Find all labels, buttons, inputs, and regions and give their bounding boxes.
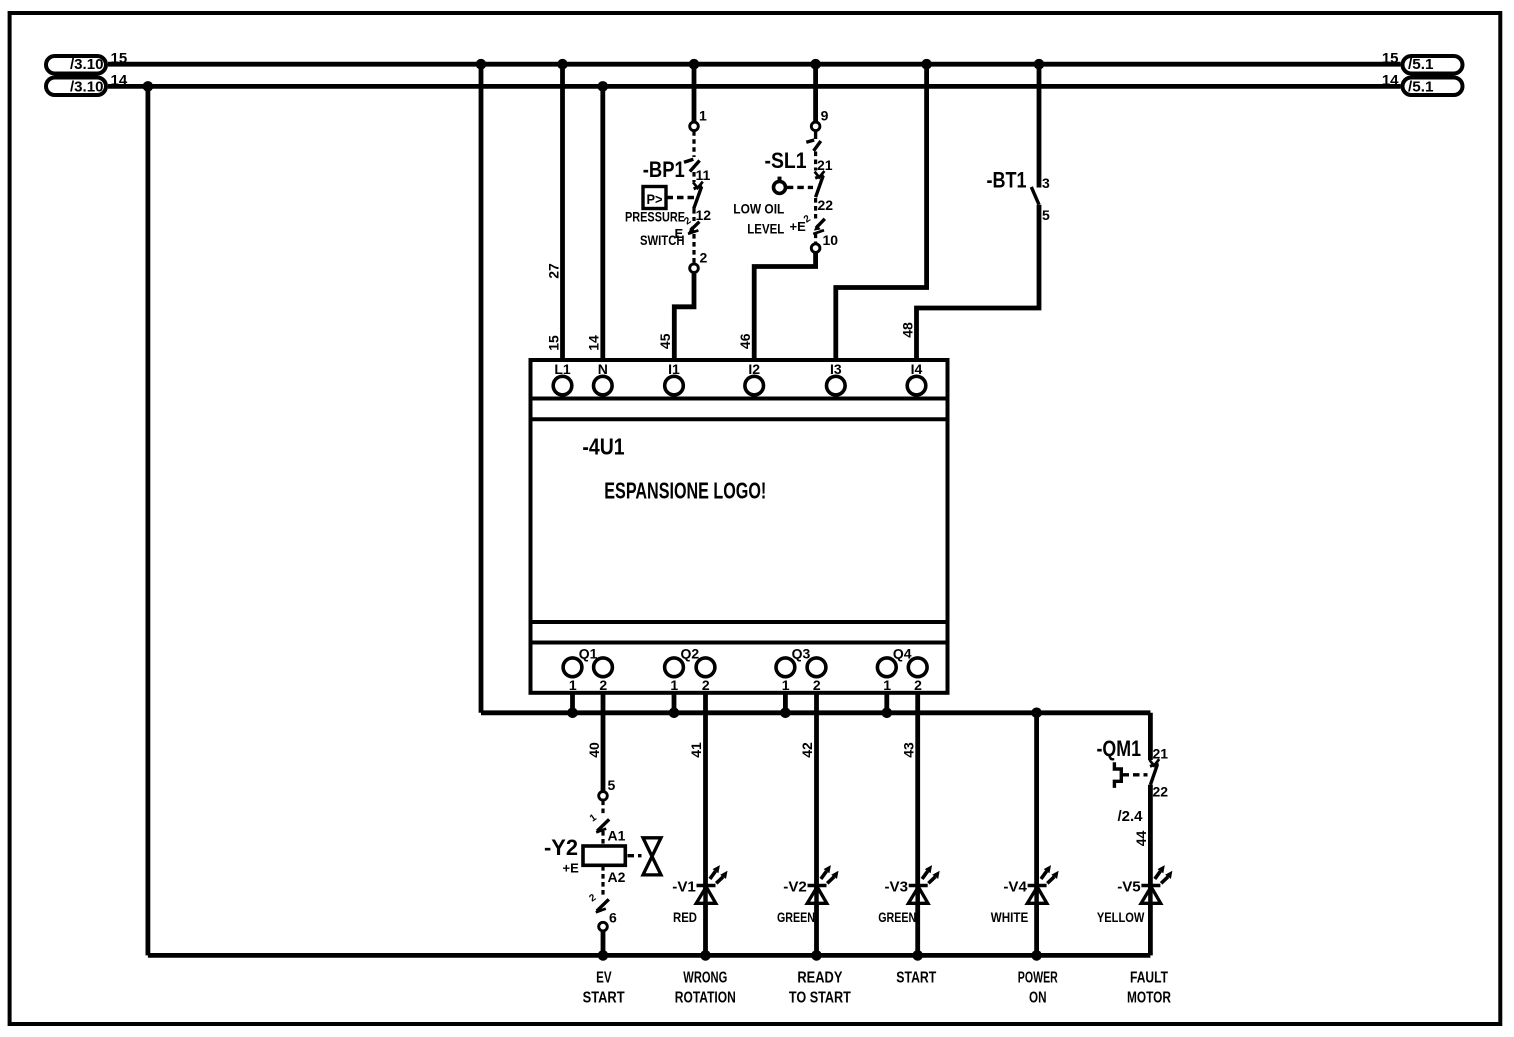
svg-text:START: START — [583, 990, 625, 1007]
svg-text:1: 1 — [670, 677, 678, 693]
svg-text:-V3: -V3 — [885, 878, 909, 895]
svg-text:5: 5 — [1042, 207, 1050, 223]
wire bus15 to SL1 pin 9 — [813, 64, 818, 122]
Y2 small mark 1 — [588, 812, 599, 824]
U1 output Q4 terminals — [877, 646, 927, 694]
svg-text:Q3: Q3 — [792, 646, 811, 662]
net label 15 left — [111, 50, 128, 67]
svg-text:E: E — [675, 226, 684, 241]
caption READY TO START — [789, 970, 851, 1007]
svg-text:-V1: -V1 — [672, 878, 696, 895]
BT1 pin label 3 — [1042, 175, 1050, 191]
svg-text:42: 42 — [799, 742, 815, 758]
svg-text:Q1: Q1 — [579, 646, 598, 662]
svg-text:48: 48 — [899, 322, 915, 338]
junction on bus 15 at x562 — [557, 59, 568, 70]
wire from common rail to QM1 — [1148, 713, 1153, 760]
thermostat contact BT1 — [1031, 187, 1039, 205]
svg-text:44: 44 — [1133, 831, 1149, 847]
wire 27/15 from bus 15 to terminal L1 — [560, 64, 565, 360]
svg-text:10: 10 — [823, 232, 839, 248]
svg-text:12: 12 — [696, 207, 712, 223]
SL1 pin label 22 — [818, 197, 834, 213]
wire number 14 — [586, 335, 602, 351]
wire number 15 — [545, 335, 561, 351]
SL1 pin label 10 — [823, 232, 839, 248]
net label 14 right — [1382, 72, 1399, 89]
svg-text:ESPANSIONE LOGO!: ESPANSIONE LOGO! — [604, 477, 766, 503]
svg-text:PRESSURE: PRESSURE — [625, 209, 685, 225]
Y2 small mark 2 — [587, 892, 598, 904]
destination connector /5.1 (net 14) — [1403, 78, 1463, 96]
svg-text:-BT1: -BT1 — [987, 168, 1027, 193]
junction rail Q3.1 — [780, 708, 791, 719]
svg-text:2: 2 — [700, 249, 708, 265]
source connector /3.10 (net 15) — [46, 56, 106, 74]
junction rail Q2.1 — [669, 708, 680, 719]
svg-text:EV: EV — [596, 970, 612, 987]
U1 terminal I2 — [745, 361, 764, 395]
U1 output Q1 terminals — [563, 646, 612, 694]
net label 14 left — [111, 72, 128, 89]
svg-text:LEVEL: LEVEL — [747, 221, 784, 237]
wire Q3.1 stub to common rail — [783, 693, 788, 713]
wire number 41 — [688, 742, 704, 758]
svg-text:N: N — [598, 361, 608, 377]
svg-text:2: 2 — [702, 677, 710, 693]
V3 colour label GREEN — [878, 909, 916, 925]
U1 terminal I1 — [665, 361, 684, 395]
junction on bus 15 at x815 — [810, 59, 821, 70]
overload contact QM1 — [1114, 759, 1159, 788]
svg-text:40: 40 — [586, 742, 602, 758]
wire bus15 to BP1 pin 1 — [692, 64, 697, 122]
LED lamp V3 — [908, 865, 939, 903]
wire from common rail to lamp V4 — [1034, 713, 1039, 956]
BP1 function text PRESSURE SWITCH — [625, 209, 685, 249]
svg-text:22: 22 — [818, 197, 834, 213]
svg-text:A1: A1 — [608, 828, 626, 844]
caption START — [896, 970, 936, 987]
V2 designator — [783, 878, 807, 895]
svg-text:-4U1: -4U1 — [582, 434, 624, 460]
svg-text:2: 2 — [914, 677, 922, 693]
wire 46 from SL1 pin10 to I2 — [754, 252, 815, 360]
wire from bus 14 down far left to bottom return rail — [145, 86, 150, 955]
svg-text:WRONG: WRONG — [683, 970, 727, 987]
junction on bus 15 at x481 — [476, 59, 487, 70]
svg-text:3: 3 — [1042, 175, 1050, 191]
wire 43 from Q4.2 to lamp V3 — [915, 693, 920, 955]
SL1 designator — [765, 148, 807, 173]
wire from bus 15 down left side to output common rail — [479, 64, 484, 713]
caption EV START — [583, 970, 625, 1007]
U1 terminal N — [594, 361, 613, 395]
Y2 pin label A1 — [608, 828, 626, 844]
BP1 pin label 11 — [696, 167, 711, 183]
V4 designator — [1003, 878, 1027, 895]
svg-text:-SL1: -SL1 — [765, 148, 807, 173]
V2 colour label GREEN — [777, 909, 815, 925]
Y2 pin label A2 — [608, 869, 626, 885]
wire Q4.1 stub to common rail — [884, 693, 889, 713]
wire 48 from BT1 pin5 to I4 — [917, 205, 1040, 360]
LED lamp V5 — [1141, 865, 1172, 903]
SL1 pin label 21 — [817, 157, 833, 173]
svg-text:14: 14 — [1382, 72, 1399, 89]
Y2 pin label 6 — [609, 910, 617, 926]
svg-text:+E: +E — [790, 219, 807, 234]
svg-text:-Y2: -Y2 — [544, 835, 578, 860]
svg-text:43: 43 — [900, 742, 916, 758]
svg-text:9: 9 — [821, 108, 829, 124]
BP1 mechanical link dashed — [667, 196, 696, 199]
svg-text:+E: +E — [563, 861, 580, 876]
svg-text:I3: I3 — [830, 361, 842, 377]
svg-text:GREEN: GREEN — [777, 909, 815, 925]
BP1 P> pressure sensor box — [643, 187, 666, 209]
V4 colour label WHITE — [991, 909, 1029, 925]
svg-text:MOTOR: MOTOR — [1127, 990, 1171, 1007]
svg-text:-V2: -V2 — [783, 878, 807, 895]
svg-text:21: 21 — [817, 157, 833, 173]
junction return V4 — [1031, 950, 1042, 961]
wire 14 from bus 14 to terminal N — [600, 86, 605, 360]
svg-text:GREEN: GREEN — [878, 909, 916, 925]
svg-text:YELLOW: YELLOW — [1097, 909, 1145, 925]
svg-text:/5.1: /5.1 — [1408, 56, 1434, 73]
V5 colour label YELLOW — [1097, 909, 1145, 925]
wire bus 14 — [108, 84, 1401, 89]
wire 41 from Q2.2 to lamp V1 — [703, 693, 708, 955]
svg-text:/2.4: /2.4 — [1117, 808, 1143, 825]
LED lamp V4 — [1027, 865, 1058, 903]
junction return V3 — [912, 950, 923, 961]
caption FAULT MOTOR — [1127, 970, 1171, 1007]
QM1 pin label 22 — [1153, 784, 1169, 800]
junction return V1 — [700, 950, 711, 961]
junction on bus 15 at x1039 — [1034, 59, 1045, 70]
svg-text:15: 15 — [1382, 50, 1399, 67]
LED lamp V1 — [696, 865, 727, 903]
svg-text:1: 1 — [782, 677, 790, 693]
U1 designator -4U1 — [582, 434, 624, 460]
Y2 pin label 5 — [608, 777, 616, 793]
BT1 pin label 5 — [1042, 207, 1050, 223]
wire number 46 — [737, 333, 753, 349]
junction return Y2 — [598, 950, 609, 961]
svg-text:START: START — [896, 970, 936, 987]
svg-text:1: 1 — [569, 677, 577, 693]
svg-text:/3.10: /3.10 — [70, 79, 104, 96]
svg-text:FAULT: FAULT — [1130, 970, 1168, 987]
wire number 48 — [899, 322, 915, 338]
BP1 small mark 2 — [682, 215, 693, 227]
wire 44 from QM1 to lamp V5 — [1148, 785, 1153, 956]
LED lamp V2 — [807, 865, 838, 903]
junction rail Q1.1 — [567, 708, 578, 719]
junction on bus 15 at x694 — [689, 59, 700, 70]
svg-text:Q2: Q2 — [680, 646, 699, 662]
svg-text:-QM1: -QM1 — [1097, 736, 1142, 761]
BP1 pin label 2 — [700, 249, 708, 265]
BP1 small mark E — [675, 226, 684, 241]
svg-text:I1: I1 — [668, 361, 680, 377]
svg-text:A2: A2 — [608, 869, 626, 885]
svg-text:45: 45 — [657, 333, 673, 349]
V5 designator — [1117, 878, 1141, 895]
svg-text:2: 2 — [813, 677, 821, 693]
SL1 mounting text +E — [790, 219, 807, 234]
svg-text:READY: READY — [797, 970, 842, 987]
wire 45 from BP1 pin2 to I1 — [674, 272, 694, 360]
svg-text:14: 14 — [586, 335, 602, 351]
float switch SL1 — [774, 122, 825, 252]
wire number 45 — [657, 333, 673, 349]
svg-text:RED: RED — [673, 909, 697, 925]
wire Q1.1 stub to common rail — [570, 693, 575, 713]
U1 output Q2 terminals — [665, 646, 715, 694]
destination connector /5.1 (net 15) — [1403, 56, 1463, 74]
U1 function text ESPANSIONE LOGO! — [604, 477, 766, 503]
wire bus 15 — [108, 62, 1401, 67]
BP1 pin label 12 — [696, 207, 712, 223]
wire number 40 — [586, 742, 602, 758]
svg-text:5: 5 — [608, 777, 616, 793]
wire bus15 to BT1 pin 3 — [1037, 64, 1042, 187]
svg-text:I4: I4 — [911, 361, 923, 377]
svg-text:1: 1 — [699, 108, 707, 124]
junction on bus 15 at x926 — [921, 59, 932, 70]
pressure switch BP1 — [684, 122, 703, 273]
svg-text:/3.10: /3.10 — [70, 56, 104, 73]
net label 15 right — [1382, 50, 1399, 67]
caption WRONG ROTATION — [675, 970, 736, 1007]
svg-text:-V5: -V5 — [1117, 878, 1141, 895]
SL1 small mark 2 — [802, 213, 813, 225]
PLC expansion module U1 body — [531, 360, 948, 693]
wire 42 from Q3.2 to lamp V2 — [814, 693, 819, 955]
svg-text:21: 21 — [1153, 746, 1169, 762]
wire from bus 15 to I3 — [836, 64, 927, 360]
QM1 cross reference /2.4 — [1117, 808, 1143, 825]
BP1 designator — [643, 157, 685, 182]
svg-text:-BP1: -BP1 — [643, 157, 685, 182]
junction on bus 14 at x147 — [143, 81, 154, 92]
source connector /3.10 (net 14) — [46, 78, 106, 96]
svg-text:L1: L1 — [554, 361, 571, 377]
V3 designator — [885, 878, 909, 895]
SL1 pin label 9 — [821, 108, 829, 124]
svg-text:-V4: -V4 — [1003, 878, 1027, 895]
Y2 designator — [544, 835, 578, 860]
junction return V2 — [811, 950, 822, 961]
svg-text:LOW OIL: LOW OIL — [733, 201, 784, 217]
wire Y2 pin6 to return rail — [601, 931, 606, 956]
svg-text:1: 1 — [883, 677, 891, 693]
solenoid valve Y2 — [583, 792, 661, 931]
caption POWER ON — [1018, 970, 1058, 1007]
wire 40 from Q1.2 to valve Y2 — [601, 693, 606, 792]
svg-text:I2: I2 — [748, 361, 760, 377]
svg-text:6: 6 — [609, 910, 617, 926]
svg-text:Q4: Q4 — [893, 646, 912, 662]
QM1 designator — [1097, 736, 1142, 761]
svg-text:27: 27 — [545, 263, 561, 279]
wire output common rail — [481, 710, 1150, 715]
wire number 42 — [799, 742, 815, 758]
U1 terminal L1 — [553, 361, 572, 395]
junction rail Q4.1 — [882, 708, 893, 719]
QM1 pin label 21 — [1153, 746, 1169, 762]
junction rail V4 branch — [1031, 708, 1042, 719]
svg-text:/5.1: /5.1 — [1408, 79, 1434, 96]
svg-text:22: 22 — [1153, 784, 1169, 800]
V1 colour label RED — [673, 909, 697, 925]
svg-text:POWER: POWER — [1018, 970, 1058, 987]
wire number 43 — [900, 742, 916, 758]
U1 terminal I3 — [827, 361, 846, 395]
Y2 mounting text +E — [563, 861, 580, 876]
svg-text:46: 46 — [737, 333, 753, 349]
U1 output Q3 terminals — [776, 646, 826, 694]
wire number 44 — [1133, 831, 1149, 847]
svg-text:P>: P> — [647, 191, 663, 207]
wire Q2.1 stub to common rail — [672, 693, 677, 713]
wire bottom return rail — [148, 953, 1151, 958]
svg-text:WHITE: WHITE — [991, 909, 1029, 925]
svg-text:15: 15 — [545, 335, 561, 351]
svg-text:ON: ON — [1029, 990, 1047, 1007]
svg-text:2: 2 — [599, 677, 607, 693]
svg-text:11: 11 — [696, 167, 711, 183]
SL1 function text LOW OIL LEVEL — [733, 201, 784, 237]
svg-text:TO START: TO START — [789, 990, 851, 1007]
BP1 pin label 1 — [699, 108, 707, 124]
V1 designator — [672, 878, 696, 895]
junction on bus 14 at x602 — [598, 81, 609, 92]
BT1 designator — [987, 168, 1027, 193]
svg-text:41: 41 — [688, 742, 704, 758]
U1 terminal I4 — [907, 361, 926, 395]
wire number 27 — [545, 263, 561, 279]
svg-text:ROTATION: ROTATION — [675, 990, 736, 1007]
